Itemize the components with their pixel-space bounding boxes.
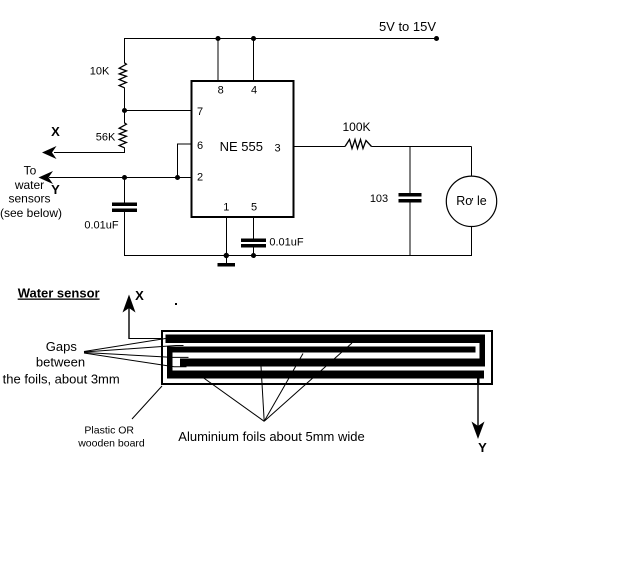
wire relay top bbox=[471, 147, 473, 177]
wire ground bottom rail bbox=[125, 255, 472, 257]
svg-text:Plastic OR: Plastic OR bbox=[84, 425, 134, 437]
svg-text:water: water bbox=[14, 178, 44, 192]
pointer line gap 3 bbox=[84, 353, 189, 358]
svg-text:Aluminium foils about 5mm wide: Aluminium foils about 5mm wide bbox=[178, 429, 364, 444]
svg-text:wooden board: wooden board bbox=[77, 438, 145, 450]
wire pin 2 / Y line bbox=[49, 177, 192, 179]
resistor R3 100K zigzag bbox=[345, 140, 372, 149]
svg-text:To: To bbox=[24, 164, 37, 178]
pointer line gap 4 bbox=[84, 353, 187, 367]
board outline rectangle bbox=[162, 331, 492, 384]
svg-text:2: 2 bbox=[197, 172, 203, 184]
svg-text:3: 3 bbox=[274, 142, 280, 154]
foil A inner bar bbox=[180, 359, 485, 367]
svg-text:X: X bbox=[135, 288, 144, 303]
svg-text:between: between bbox=[36, 355, 85, 370]
pointer line foil 1 bbox=[203, 378, 264, 422]
svg-text:0.01uF: 0.01uF bbox=[84, 220, 119, 232]
pointer line board corner bbox=[132, 386, 162, 419]
svg-text:103: 103 bbox=[370, 193, 388, 205]
wire pin 7 bbox=[125, 110, 192, 112]
wire R3 to relay branch bbox=[372, 146, 472, 148]
wire 103 cap branch down bbox=[409, 147, 411, 195]
svg-text:10K: 10K bbox=[90, 66, 110, 78]
wire V+ top rail bbox=[125, 38, 438, 40]
svg-text:0.01uF: 0.01uF bbox=[269, 237, 304, 249]
capacitor C2 0.01uF plates bbox=[242, 239, 266, 242]
pointer line gap 1 bbox=[84, 339, 166, 352]
svg-text:NE 555: NE 555 bbox=[220, 139, 263, 154]
svg-text:Gaps: Gaps bbox=[46, 339, 78, 354]
svg-text:Rơ le: Rơ le bbox=[456, 194, 486, 208]
op IC U1 NE555 body bbox=[192, 81, 294, 217]
svg-text:Y: Y bbox=[478, 440, 487, 455]
foil A right vertical bbox=[480, 335, 486, 367]
pointer line foil 3 bbox=[264, 354, 303, 422]
wire pin 3 to R3 bbox=[294, 146, 346, 148]
node junction R1/R2/pin7 dot bbox=[122, 108, 126, 112]
capacitor C3 103 plates bbox=[399, 194, 421, 197]
resistor R1 10K zigzag bbox=[119, 63, 126, 88]
wire pin 4 bbox=[253, 38, 255, 81]
wire R1 to junction bbox=[124, 88, 126, 124]
wire relay bottom bbox=[471, 226, 473, 256]
svg-text:5V to 15V: 5V to 15V bbox=[379, 19, 436, 34]
axis Y arrow (sensor) bbox=[472, 383, 485, 439]
wire C3 to ground rail bbox=[409, 202, 411, 256]
node X arrowhead (circuit) bbox=[42, 146, 57, 159]
svg-text:1: 1 bbox=[223, 202, 229, 214]
pointer line foil 4 bbox=[264, 343, 352, 421]
wire pin 5 to C2 bbox=[253, 216, 255, 239]
foil B left vertical bbox=[167, 347, 173, 379]
svg-text:(see below): (see below) bbox=[0, 206, 62, 220]
foil B bottom bar bbox=[167, 371, 484, 379]
svg-text:sensors: sensors bbox=[8, 192, 50, 206]
wire R2 bottom to X arm bbox=[54, 148, 125, 153]
node Y arrowhead (circuit) bbox=[39, 171, 54, 184]
node dot pin1 ground bbox=[224, 253, 228, 257]
svg-text:4: 4 bbox=[251, 85, 257, 97]
svg-text:56K: 56K bbox=[96, 132, 116, 144]
wire pin 1 to ground rail bbox=[225, 216, 227, 256]
foil B second bar bbox=[167, 347, 476, 353]
node dot rail pin8 bbox=[216, 36, 220, 40]
resistor R2 56K zigzag bbox=[119, 123, 126, 148]
svg-text:Water sensor: Water sensor bbox=[18, 286, 100, 301]
wire pin 8 bbox=[217, 38, 219, 81]
axis X arrow (sensor) bbox=[123, 295, 167, 340]
node dot pin2 line at C1 bbox=[122, 175, 126, 179]
foil B Y stub bbox=[477, 379, 480, 386]
svg-text:X: X bbox=[51, 124, 60, 139]
wire C1 to ground rail bbox=[124, 212, 126, 257]
pointer line gap 2 bbox=[84, 346, 184, 353]
svg-text:6: 6 bbox=[197, 140, 203, 152]
node dot pin2/pin6 junction bbox=[175, 175, 179, 179]
pointer line foil 2 bbox=[261, 366, 264, 421]
capacitor C1 0.01uF plates bbox=[113, 203, 137, 206]
stray dot bbox=[175, 303, 177, 305]
svg-text:7: 7 bbox=[197, 106, 203, 118]
relay K1 circle bbox=[446, 176, 496, 226]
svg-text:100K: 100K bbox=[342, 120, 370, 134]
wire pin 6 to pin 2 bbox=[178, 144, 192, 178]
wire from rail down to R1 bbox=[124, 38, 126, 63]
node dot pin5 ground bbox=[251, 253, 255, 257]
svg-text:Y: Y bbox=[51, 182, 60, 197]
wire C2 to ground rail bbox=[253, 247, 255, 256]
node 5V supply terminal dot bbox=[434, 36, 438, 40]
svg-text:5: 5 bbox=[251, 202, 257, 214]
ground symbol bbox=[225, 256, 227, 264]
foil A top bar bbox=[166, 335, 486, 344]
svg-text:the foils, about 3mm: the foils, about 3mm bbox=[3, 372, 120, 387]
node dot rail pin4 bbox=[251, 36, 255, 40]
wire pin2 line down to C1 bbox=[124, 178, 126, 204]
svg-text:8: 8 bbox=[218, 85, 224, 97]
